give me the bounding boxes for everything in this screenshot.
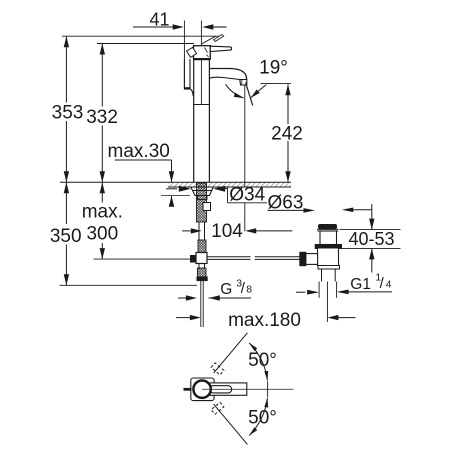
svg-text:8: 8 <box>246 284 252 296</box>
svg-text:G1: G1 <box>350 276 371 293</box>
svg-text:300: 300 <box>86 224 118 245</box>
svg-text:353: 353 <box>52 103 84 124</box>
svg-text:242: 242 <box>271 124 303 145</box>
svg-text:350: 350 <box>50 226 82 247</box>
svg-text:332: 332 <box>86 107 118 128</box>
svg-text:4: 4 <box>386 278 392 290</box>
svg-text:104: 104 <box>211 221 243 242</box>
svg-text:max.180: max.180 <box>228 310 301 331</box>
svg-text:G: G <box>220 281 232 298</box>
svg-text:19°: 19° <box>259 57 288 78</box>
svg-text:50°: 50° <box>248 408 277 429</box>
svg-text:50°: 50° <box>248 350 277 371</box>
svg-text:40-53: 40-53 <box>348 229 394 249</box>
svg-text:max.30: max.30 <box>108 141 170 162</box>
svg-text:max.: max. <box>82 202 123 223</box>
